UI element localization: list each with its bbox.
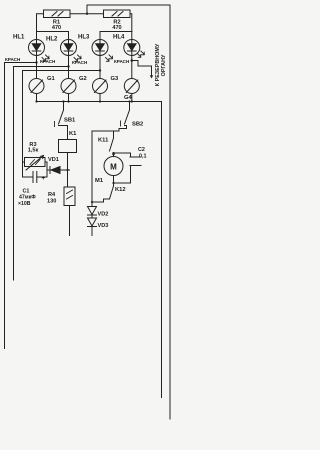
svg-text:HL4: HL4 (113, 35, 125, 41)
wire LED anode bus right (100, 31, 132, 33)
node HL3 cathode tap (23, 69, 102, 71)
svg-text:+: + (42, 176, 46, 182)
wire brain bottom bus (35, 100, 161, 102)
wire right inner rail (161, 102, 163, 398)
label C1 47мкФ +10В (18, 189, 36, 208)
LED HL4 (124, 32, 145, 79)
photocell G1 (29, 79, 44, 102)
svg-text:КРАСН: КРАСН (72, 60, 88, 65)
svg-text:K11: K11 (98, 138, 109, 144)
svg-text:R4: R4 (48, 192, 56, 198)
svg-text:HL2: HL2 (46, 37, 58, 43)
wire left bus C (22, 71, 24, 178)
svg-text:SB2: SB2 (132, 122, 143, 128)
svg-text:1,5к: 1,5к (28, 148, 39, 154)
capacitor C2 (112, 152, 141, 184)
relay contact K11 (92, 131, 119, 157)
svg-text:470: 470 (112, 25, 121, 31)
svg-text:G1: G1 (47, 76, 56, 82)
node HL1 cathode tap (5, 61, 38, 63)
label R2 470 (112, 20, 121, 31)
svg-text:47мкФ: 47мкФ (19, 194, 36, 200)
label R1 470 (52, 20, 61, 31)
LED HL1 (29, 32, 50, 79)
svg-text:КРАСН: КРАСН (114, 59, 130, 64)
label C2 0,1 (138, 147, 147, 159)
svg-text:КРАСН: КРАСН (40, 59, 56, 64)
label К РЕЗЕРВНОМУ ОРГАНУ (155, 43, 167, 86)
photocell G2 (61, 79, 76, 102)
wire left bus B (13, 67, 15, 281)
photocell G4 (124, 79, 139, 102)
wire right outer rail (169, 5, 171, 419)
svg-text:HL1: HL1 (13, 35, 25, 41)
svg-text:G4: G4 (124, 95, 133, 101)
svg-text:VD1: VD1 (48, 157, 59, 163)
svg-text:М: М (110, 163, 117, 172)
variable resistor R3 (23, 156, 48, 171)
resistor R1 (37, 5, 104, 32)
LED HL2 (61, 32, 82, 79)
svg-text:470: 470 (52, 25, 61, 31)
svg-text:КРАСН: КРАСН (5, 57, 21, 62)
LED HL3 (92, 32, 113, 79)
switch SB2 (119, 102, 130, 132)
svg-text:M1: M1 (95, 178, 104, 184)
diode VD3 (88, 215, 97, 236)
svg-text:VD2: VD2 (98, 212, 109, 218)
svg-text:G2: G2 (79, 76, 87, 82)
capacitor C1 (23, 162, 48, 183)
relay coil K1 (59, 140, 77, 188)
node HL4 cathode tap (131, 59, 134, 62)
wire top supply rail (87, 4, 170, 6)
diode VD2 (88, 131, 97, 215)
svg-text:130: 130 (47, 198, 56, 204)
node HL2 cathode tap (14, 65, 70, 67)
svg-text:G3: G3 (111, 76, 120, 82)
svg-text:K1: K1 (69, 131, 77, 137)
resistor R4 (64, 187, 75, 236)
svg-text:C2: C2 (138, 147, 145, 153)
resistor R2 (104, 10, 132, 32)
wire left bus A (4, 63, 6, 349)
svg-text:HL3: HL3 (78, 35, 90, 41)
photocell G3 (93, 79, 108, 102)
label R4 130 (47, 192, 56, 204)
diode VD1 (47, 167, 70, 174)
label R3 1,5k (28, 142, 39, 154)
svg-text:SB1: SB1 (64, 118, 76, 124)
svg-text:0,1: 0,1 (139, 153, 147, 159)
wire LED anode bus left (37, 31, 69, 33)
switch SB1 (55, 102, 68, 140)
svg-text:×10В: ×10В (18, 201, 31, 207)
wire to reserve organ with arrow (132, 61, 153, 79)
relay contact K12 (92, 176, 114, 203)
svg-text:VD3: VD3 (98, 223, 109, 229)
svg-text:ОРГАНУ: ОРГАНУ (161, 54, 167, 76)
svg-text:K12: K12 (115, 187, 126, 193)
motor M1 (104, 157, 123, 176)
